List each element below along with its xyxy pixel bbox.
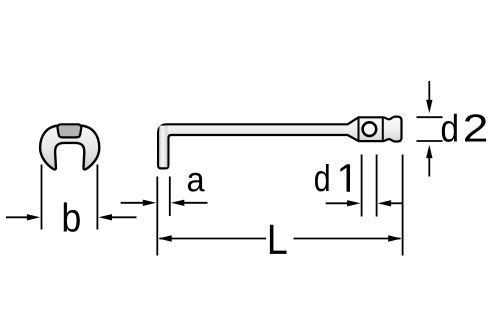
dimension b: left extension line: [41, 165, 43, 230]
dimension b: left arrow: [6, 216, 28, 218]
dimension b: right arrow: [110, 216, 137, 218]
dimension d2: top tick: [417, 116, 443, 118]
dimension a: right arrow: [184, 202, 208, 204]
dimension d1: right arrow: [390, 202, 403, 204]
dimension a: right extension line: [169, 177, 171, 217]
leg shading overlay: [159, 126, 167, 168]
socket body left edge line: [358, 117, 360, 141]
socket body right edge line: [382, 117, 384, 141]
dimension d2: lower arrow (up): [428, 157, 430, 177]
dimension a: left extension line (shared with L): [156, 177, 158, 256]
dimension L: left arrowhead: [158, 235, 171, 241]
dimension d2: upper arrow (down): [428, 81, 430, 101]
dimension a: label: [188, 173, 205, 192]
dimension L: line left segment: [160, 238, 267, 240]
dimension d1: left extension line: [361, 155, 363, 217]
dimension L: label: [270, 225, 287, 254]
dimension L: right arrowhead: [388, 235, 401, 241]
dimension d2: bottom tick: [417, 140, 443, 142]
dimension d1: right extension line: [376, 155, 378, 217]
dimension b: label: [64, 202, 80, 231]
open-end wrench head (end view, left figure): [40, 126, 99, 170]
dimension d2: label: [442, 114, 457, 142]
open-end jaw insert panel (dark): [58, 124, 82, 137]
dimension d2: label digit 2: [465, 114, 486, 141]
dimension d1: label digit 1: [340, 164, 350, 192]
socket cross hole: [363, 122, 377, 136]
dimension d1: left arrow: [326, 202, 349, 204]
dimension d1: label: [315, 164, 329, 191]
L-wrench body (leg + shaft + socket head): [158, 117, 401, 169]
dimension L: right extension line: [402, 155, 404, 256]
dimension b: right extension line: [96, 165, 98, 230]
dimension L: line right segment: [294, 238, 401, 240]
dimension a: left arrow: [121, 202, 144, 204]
